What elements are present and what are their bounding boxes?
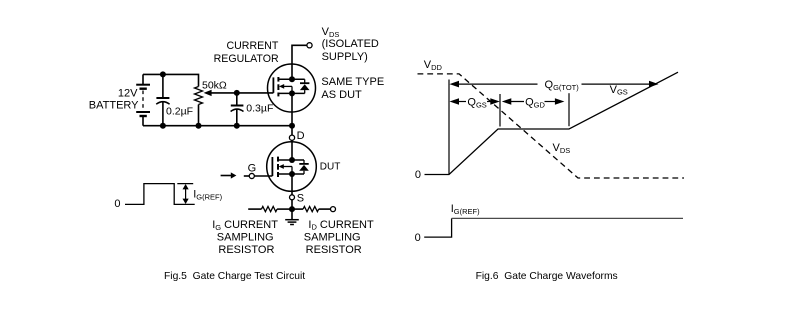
svg-text:(ISOLATED: (ISOLATED (322, 38, 379, 50)
svg-text:0: 0 (415, 232, 421, 244)
node bottom rail R1 (196, 123, 202, 129)
ground (285, 209, 299, 224)
svg-text:50kΩ: 50kΩ (202, 79, 227, 91)
svg-text:RESISTOR: RESISTOR (218, 244, 274, 256)
wire G to gate (254, 175, 272, 177)
svg-text:SAMPLING: SAMPLING (217, 232, 274, 244)
svg-text:ID CURRENT: ID CURRENT (308, 219, 374, 232)
svg-text:VDS: VDS (322, 26, 340, 39)
wire QGD dimension (502, 98, 565, 105)
TEXT left circuit (89, 26, 384, 282)
node terminal VDS supply (307, 43, 312, 48)
svg-text:D: D (297, 130, 305, 142)
node G terminal (249, 173, 254, 178)
node D terminal (289, 135, 294, 140)
svg-text:S: S (297, 193, 304, 205)
wire D to DUT drain (291, 140, 293, 160)
node middle tick (499, 94, 501, 127)
svg-text:REGULATOR: REGULATOR (214, 53, 279, 65)
svg-text:VDD: VDD (424, 59, 443, 72)
svg-text:VDS: VDS (553, 142, 571, 155)
svg-text:0.2µF: 0.2µF (166, 105, 193, 117)
wire Q1 source down to node D (291, 93, 293, 135)
capacitor C1 0.2uF (156, 74, 169, 125)
svg-text:12V: 12V (118, 87, 138, 99)
battery B1 12V (136, 74, 150, 125)
resistor R2 IG sampling (248, 207, 292, 212)
TEXT right diagram (415, 59, 628, 282)
wire top rail (143, 74, 199, 86)
svg-text:VGS: VGS (610, 84, 628, 97)
svg-text:QGD: QGD (525, 97, 545, 110)
svg-text:AS DUT: AS DUT (321, 89, 362, 101)
svg-text:QGS: QGS (467, 97, 486, 110)
resistor R3 ID sampling (292, 207, 331, 212)
resistor R1 50k potentiometer (195, 87, 203, 126)
wire S to junction (291, 200, 293, 209)
svg-text:IG(REF): IG(REF) (451, 203, 480, 216)
svg-text:0.3µF: 0.3µF (246, 103, 273, 115)
transistor Q2 internals (272, 157, 304, 177)
wiper arrow of R1 (204, 90, 274, 96)
node junction sampling (289, 206, 295, 212)
transistor Q1 current regulator body (268, 64, 316, 112)
svg-text:QG(TOT): QG(TOT) (545, 79, 580, 92)
transistor Q2 DUT body (267, 142, 317, 192)
input arrow to gate (221, 172, 237, 178)
wire bottom rail (143, 125, 292, 127)
wire QGS dimension (450, 98, 500, 105)
wire gate stub left of G (244, 175, 250, 177)
node top rail C1 tap (160, 71, 166, 77)
svg-text:RESISTOR: RESISTOR (306, 244, 362, 256)
svg-text:CURRENT: CURRENT (227, 40, 279, 52)
svg-text:DUT: DUT (320, 161, 341, 172)
transistor Q1 internals (273, 76, 304, 96)
diode D1 body diode of Q1 (300, 79, 310, 93)
svg-text:SAME TYPE: SAME TYPE (321, 76, 384, 88)
wire VDS waveform dashed (418, 74, 685, 178)
node S terminal (290, 195, 295, 200)
node bottom rail to Q1 source column (289, 123, 295, 129)
node wiper-C2 (234, 90, 240, 96)
svg-text:BATTERY: BATTERY (89, 100, 139, 112)
wire IG(REF) waveform (424, 218, 451, 237)
node R3 right terminal (331, 207, 336, 212)
wire Q1 drain to supply terminal (292, 45, 307, 79)
svg-text:SAMPLING: SAMPLING (304, 232, 361, 244)
svg-text:Fig.6 Gate Charge Waveforms: Fig.6 Gate Charge Waveforms (476, 271, 618, 282)
node bottom rail C1 (160, 123, 166, 129)
svg-text:Fig.5 Gate Charge Test Circui: Fig.5 Gate Charge Test Circuit (164, 271, 305, 282)
svg-text:0: 0 (415, 169, 421, 181)
node bottom rail C2 (234, 123, 240, 129)
wire VGS waveform (425, 72, 679, 174)
IG(REF) input pulse waveform (125, 184, 195, 205)
svg-text:0: 0 (114, 198, 120, 210)
node left marker line (448, 80, 450, 175)
svg-text:SUPPLY): SUPPLY) (322, 51, 368, 63)
diode D2 body diode of Q2 (299, 160, 309, 174)
svg-text:IG CURRENT: IG CURRENT (212, 219, 278, 232)
svg-text:IG(REF): IG(REF) (193, 189, 222, 202)
node right tick (568, 93, 570, 126)
wire QG(TOT) dimension (450, 81, 659, 88)
RIGHT: gate charge waveforms (418, 72, 685, 237)
LEFT: gate charge test circuit (125, 43, 336, 225)
svg-text:G: G (248, 163, 257, 175)
capacitor C2 0.3uF (231, 93, 244, 126)
wire DUT source to S (291, 174, 293, 195)
